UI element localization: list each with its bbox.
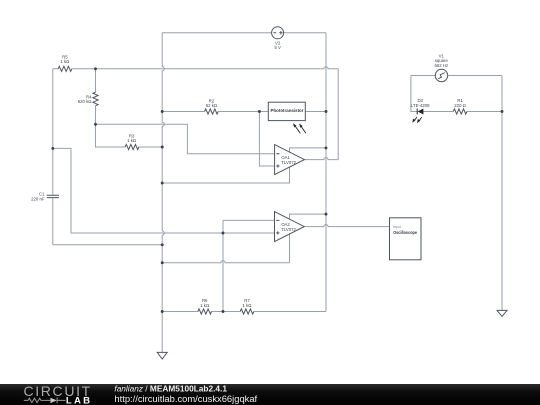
svg-text:220 Ω: 220 Ω xyxy=(454,103,466,108)
junction R4-bottom node xyxy=(94,123,97,126)
svg-text:LAB: LAB xyxy=(66,395,92,405)
junction OA1 + riser tap xyxy=(258,110,261,113)
svg-text:Phototransistor: Phototransistor xyxy=(271,108,304,113)
junction R3-right on GND rail xyxy=(161,146,164,149)
wire LED branch x=410.9 xyxy=(411,76,417,112)
wire OA2 V+ pin to +5V rail xyxy=(290,214,327,219)
op-amp OA1 TLV072 xyxy=(275,145,305,175)
capacitor C1 xyxy=(31,192,59,202)
wire R4-bottom to OA1 - input xyxy=(96,124,275,153)
svg-text:fanlianz / MEAM5100Lab2.4.1: fanlianz / MEAM5100Lab2.4.1 xyxy=(114,384,227,394)
resistor R2 xyxy=(205,99,219,115)
svg-text:Oscilloscope: Oscilloscope xyxy=(393,230,417,235)
svg-text:LTE-4208: LTE-4208 xyxy=(411,103,430,108)
wire OA2 V- pin to GND rail with hop xyxy=(162,234,289,263)
svg-text:TLV072: TLV072 xyxy=(281,160,296,165)
junction OA2 V+ on +5V rail xyxy=(325,213,328,216)
svg-text:http://circuitlab.com/cuskx66j: http://circuitlab.com/cuskx66jgqkaf xyxy=(114,393,257,404)
wire V2 left lead to ground rail xyxy=(162,32,271,34)
junction R1-right on right rail xyxy=(501,110,504,113)
svg-text:1 kΩ: 1 kΩ xyxy=(60,59,70,64)
svg-text:5 V: 5 V xyxy=(274,45,281,50)
resistor R4 xyxy=(78,92,98,106)
logo schematic doodle: wire resistor diode xyxy=(24,398,66,404)
wire V2 right lead to +5V rail xyxy=(284,32,326,34)
oscilloscope box xyxy=(390,218,422,260)
voltage source V1 (square wave) xyxy=(434,53,448,81)
junction C1-top branch node xyxy=(51,147,54,150)
wire R2 row y=111.7 xyxy=(162,111,326,113)
wire +5V rail vertical x=326 xyxy=(325,33,327,312)
wire bottom divider row y=311 xyxy=(162,311,326,313)
wire V1 row y=75.5 xyxy=(411,75,502,77)
junction C1-bottom on GND rail xyxy=(161,243,164,246)
svg-text:620 kΩ: 620 kΩ xyxy=(78,99,93,104)
LED D3 xyxy=(411,98,430,114)
wire C1 bottom row y=244.8 xyxy=(53,244,162,246)
junction phototransistor on +5V rail xyxy=(325,110,328,113)
voltage source V2 xyxy=(272,27,284,50)
wire branch C1-top to OA2 + input xyxy=(53,148,275,233)
junction OA2 V- on GND rail xyxy=(161,261,164,264)
resistor R6 xyxy=(198,298,212,314)
wire OA1 + input riser x=259.4 xyxy=(259,112,274,167)
junction OA1 V+ on +5V rail xyxy=(325,146,328,149)
svg-text:Input: Input xyxy=(393,225,401,229)
svg-text:220 nF: 220 nF xyxy=(31,196,45,201)
ground (left) xyxy=(157,352,167,359)
wire R3 row y=147 xyxy=(96,124,163,147)
ground (right) xyxy=(497,310,507,316)
junction R5/R4/feedback node xyxy=(94,67,97,70)
node A vertical x=223 to divider midpoint xyxy=(222,220,224,311)
svg-text:1 kΩ: 1 kΩ xyxy=(243,303,253,308)
wire OA1 V- pin to GND rail xyxy=(162,167,289,183)
wire R5 row / feedback top row y=68.8 xyxy=(53,67,338,69)
junction OA2 input node A xyxy=(222,232,225,235)
resistor R7 xyxy=(240,298,254,314)
junction R2-left on GND rail xyxy=(161,110,164,113)
wire OA2 - input from node A xyxy=(223,219,275,221)
svg-text:1 kΩ: 1 kΩ xyxy=(200,303,210,308)
junction R6/R7 midpoint xyxy=(222,310,225,313)
wire OA1 V+ pin to +5V rail xyxy=(290,148,327,153)
wire OA2 output row y=226.6 to oscilloscope xyxy=(304,225,389,227)
wire LED row y=111.8 xyxy=(423,111,502,113)
svg-text:1 kΩ: 1 kΩ xyxy=(127,138,137,143)
svg-text:62 kΩ: 62 kΩ xyxy=(206,103,218,108)
junction OA1 V- on GND rail xyxy=(161,182,164,185)
phototransistor Q1 box xyxy=(268,102,305,120)
resistor R1 xyxy=(453,98,467,114)
phototransistor light arrows xyxy=(293,123,306,133)
junction R6-left on GND rail xyxy=(161,310,164,313)
op-amp OA2 TLV072 xyxy=(275,212,305,242)
resistor R5 xyxy=(58,55,72,72)
LED D3 emission arrows xyxy=(412,117,422,123)
wire GND rail vertical x=162 with hops xyxy=(162,33,164,352)
resistor R3 xyxy=(125,133,139,149)
wire OA1 output row y=159.6 xyxy=(304,158,338,160)
wire OA1 output feedback riser x=338 xyxy=(337,69,339,160)
wire R4 stubs xyxy=(95,69,97,125)
wire right rail x=502 xyxy=(501,76,503,311)
svg-text:662 Hz: 662 Hz xyxy=(434,63,448,68)
wire left column x=52.8 through C1 xyxy=(52,69,54,245)
svg-text:TLV072: TLV072 xyxy=(281,227,296,232)
